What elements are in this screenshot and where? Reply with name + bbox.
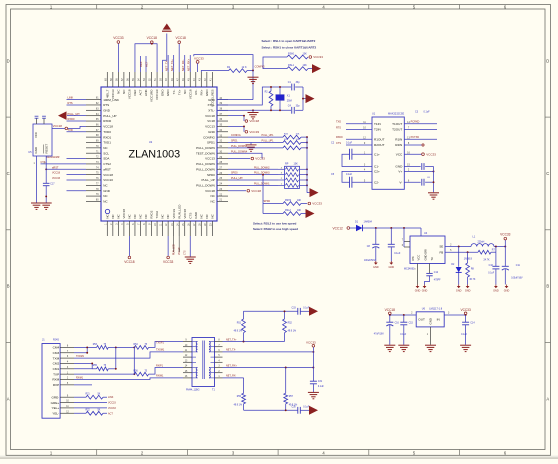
svg-text:NET_TX+: NET_TX+ (226, 338, 237, 341)
svg-text:ZLAN1003: ZLAN1003 (128, 148, 180, 160)
svg-text:R55: R55 (93, 365, 98, 367)
wire VCC12 rail (363, 227, 422, 236)
transformer T1 PM44_11BG body (186, 338, 215, 392)
svg-text:C33: C33 (292, 307, 297, 309)
svg-text:Select : RSH1 to close UART1&U: Select : RSH1 to close UART1&UART2 (262, 45, 317, 49)
svg-text:33p: 33p (296, 81, 301, 84)
svg-text:RUN_LED: RUN_LED (173, 244, 175, 255)
svg-text:TX+: TX+ (177, 89, 181, 95)
svg-text:C1+: C1+ (374, 152, 380, 156)
svg-text:RP: RP (285, 163, 289, 166)
svg-text:A: A (7, 397, 10, 402)
svg-text:RXP: RXP (53, 383, 59, 387)
ground port R8 (465, 285, 471, 293)
net NET_TX- wire (223, 349, 315, 353)
svg-text:5K: 5K (98, 410, 101, 412)
svg-text:C: C (546, 171, 549, 176)
svg-text:PULL_DOWN1: PULL_DOWN1 (254, 183, 270, 185)
wire U4 FB row (445, 250, 478, 253)
svg-text:TEST_DOWN: TEST_DOWN (196, 151, 215, 155)
net stub NET_TX- (164, 55, 168, 72)
svg-text:0.1uF: 0.1uF (346, 141, 353, 144)
power flag VCC33 via RSH1 (309, 55, 323, 59)
svg-text:GND: GND (103, 108, 111, 112)
regulator U6 LM1117-1.8 body (416, 307, 444, 327)
svg-text:SPD0: SPD0 (207, 173, 215, 177)
svg-text:GND: GND (208, 130, 216, 134)
svg-text:R53: R53 (93, 344, 98, 346)
wire VCC33 tap rows 35-34 (228, 125, 259, 133)
U5 pin2 reset leg with capacitor C17 (41, 156, 56, 209)
svg-text:0.1uF: 0.1uF (318, 386, 324, 388)
svg-text:CONFIG: CONFIG (255, 64, 265, 68)
svg-text:GND: GND (493, 290, 499, 293)
svg-text:RXD0: RXD0 (103, 119, 111, 123)
wire IN to VCC33 (444, 313, 466, 316)
arrow port TX rail (309, 307, 318, 316)
svg-text:NET_RX+: NET_RX+ (226, 364, 237, 367)
svg-text:VCC33: VCC33 (163, 260, 174, 264)
resistor RSL1 10K (287, 64, 308, 70)
svg-text:VCC18: VCC18 (52, 172, 61, 175)
svg-text:LINK: LINK (144, 90, 148, 97)
svg-text:RSL2: RSL2 (285, 210, 291, 212)
svg-text:YEL+: YEL+ (52, 406, 60, 410)
pullup rail to arrow port (307, 137, 319, 197)
svg-text:VCC33: VCC33 (460, 308, 471, 312)
svg-text:B: B (7, 284, 10, 289)
capacitor C5 flying cap C2+/C2- (331, 171, 372, 187)
svg-text:Select: RSL2 to use low speed: Select: RSL2 to use low speed (253, 221, 297, 225)
arrow port after RSL1 (308, 64, 321, 73)
ground under crystal rail (248, 110, 259, 119)
capacitor C31 0.1uF center tap (308, 381, 324, 399)
crystal X1 25M (276, 86, 292, 111)
svg-text:GND: GND (166, 89, 170, 97)
svg-text:R2IN: R2IN (395, 143, 402, 147)
svg-text:C: C (7, 171, 10, 176)
net NET_RX- wire (223, 375, 244, 378)
svg-text:NET_RX-: NET_RX- (181, 59, 185, 71)
svg-text:10K: 10K (303, 53, 308, 56)
svg-text:R2OUT: R2OUT (374, 143, 385, 147)
svg-text:C31: C31 (318, 381, 323, 383)
power flag VCC33 bottom (163, 236, 174, 264)
svg-text:PM44_11BG: PM44_11BG (186, 388, 200, 391)
net label aRST (45, 166, 86, 170)
net stub NET_TX+ (170, 55, 174, 72)
svg-text:NET_TX-: NET_TX- (164, 60, 168, 71)
svg-text:12 K: 12 K (242, 66, 247, 69)
svg-text:MAX3232CSE: MAX3232CSE (388, 112, 404, 115)
svg-text:LINK: LINK (68, 96, 74, 100)
svg-text:V-: V- (399, 180, 402, 184)
op-amp U2 ZLAN1003 main chip body (101, 87, 217, 221)
svg-text:PULL_DOWN: PULL_DOWN (196, 167, 215, 171)
net label CTS to U1 (336, 142, 372, 145)
svg-text:SE: SE (439, 245, 443, 249)
svg-text:NET_TX-: NET_TX- (226, 349, 236, 352)
svg-text:VCC18: VCC18 (205, 114, 215, 118)
svg-text:R22: R22 (86, 410, 91, 412)
svg-text:RX+: RX+ (199, 89, 203, 95)
svg-text:C11: C11 (516, 265, 521, 267)
net label PCTXD from R1IN (404, 136, 437, 139)
power flag VCC33 at chip top (113, 36, 124, 72)
svg-text:1N4004: 1N4004 (364, 220, 373, 223)
svg-text:GND: GND (34, 147, 38, 153)
wire VCC18 pi-link over top pins (135, 43, 157, 72)
svg-text:RSH2: RSH2 (285, 200, 292, 202)
svg-text:VCC33: VCC33 (108, 407, 116, 410)
power flag VCC33 on RES net (194, 56, 204, 72)
svg-text:RTS: RTS (336, 127, 341, 130)
power flag VCC18 bottom (124, 236, 135, 264)
svg-text:XTL-: XTL- (208, 108, 215, 112)
svg-text:49.9 1%: 49.9 1% (234, 331, 242, 333)
J1 pin stubs (60, 346, 74, 414)
svg-text:R50: R50 (237, 396, 242, 398)
capacitor C2 flying cap C1+/C1- (331, 141, 372, 166)
svg-text:0.1uF: 0.1uF (303, 406, 309, 408)
svg-text:PULL_UP!: PULL_UP! (231, 177, 243, 180)
svg-text:TXM: TXM (53, 356, 60, 360)
svg-text:25M: 25M (287, 100, 292, 103)
svg-text:RXIP1: RXIP1 (156, 364, 164, 367)
svg-text:VCC12: VCC12 (333, 226, 344, 230)
svg-text:C14: C14 (470, 322, 475, 324)
op-amp U1 MAX3232CSE body (363, 112, 410, 189)
svg-text:10K: 10K (297, 200, 302, 202)
svg-text:0.1uF: 0.1uF (394, 252, 401, 255)
svg-text:VCC33: VCC33 (194, 56, 204, 60)
svg-text:RX-: RX- (194, 90, 198, 95)
regulator U4 MC34063 body (404, 232, 445, 270)
capacitor C1 33p (288, 81, 301, 90)
net label LINK (67, 96, 87, 100)
ground port C12 (422, 285, 428, 293)
svg-text:PULL_UP: PULL_UP (201, 178, 214, 182)
svg-text:GND: GND (504, 290, 510, 293)
ground port D2 (456, 285, 462, 293)
svg-text:DEF: DEF (133, 89, 137, 95)
capacitor C8 100uF/50V (364, 228, 379, 262)
resistor R54 75 (134, 344, 149, 350)
net label VCC18 row 75 (52, 172, 86, 175)
net RXIP1 wire to transformer (149, 364, 183, 374)
svg-text:A: A (546, 397, 549, 402)
svg-text:SCL: SCL (103, 151, 109, 155)
wire XTL+ to crystal top rail (217, 87, 303, 105)
svg-text:C30: C30 (292, 406, 297, 408)
capacitor C15 0.1uF (398, 315, 413, 352)
svg-text:VCC33: VCC33 (306, 340, 316, 344)
arrow port RX rail (309, 406, 318, 415)
power flag VCC18 to reset chip (52, 124, 86, 130)
resistor R21 LED green (74, 394, 114, 400)
net label TXD to U1 (336, 121, 372, 124)
net label RTS to U1 (336, 127, 372, 130)
capacitor C11 100uF/16V (502, 247, 523, 285)
power flag VCC33 row 29 (228, 157, 265, 161)
svg-text:GRE-: GRE- (51, 395, 59, 399)
resistor R51 49.9 1% (234, 311, 246, 341)
resistor RSH2 10K (283, 200, 307, 206)
svg-text:RJ45: RJ45 (53, 339, 59, 342)
ground under R1 and pin40 GND riser (217, 71, 259, 100)
wire SPD0 branch to speed select resistors (262, 174, 283, 214)
ground port C11 (504, 285, 510, 293)
svg-text:VCC33: VCC33 (255, 157, 265, 161)
net label MAX811 reset net (47, 156, 60, 159)
svg-text:GND: GND (456, 290, 462, 293)
net stubs RUN_LED VCC18 CTS bottom (173, 236, 186, 255)
svg-text:TXD0: TXD0 (103, 130, 111, 134)
net VCC33 green anode (74, 402, 116, 405)
resistor R8 36.7K (466, 252, 476, 284)
capacitor C12 470PF timing (425, 264, 442, 285)
net NET_RX+ wire (223, 364, 315, 368)
svg-text:Select: RSH2 to use high speed: Select: RSH2 to use high speed (253, 227, 298, 231)
crystal right rail and arrow port (302, 87, 314, 110)
net label SPD1 row 32 with pull resistor R26 (228, 139, 308, 145)
svg-text:GND: GND (429, 318, 433, 324)
resistor R56 75 (74, 371, 149, 377)
net NET_TX+ wire (223, 338, 285, 342)
capacitor C10 0.1uF (488, 252, 499, 284)
power flag VCC33 at U1 VCC (404, 152, 436, 156)
diode D1 1N4004 (355, 220, 373, 231)
net stub NET_RX- (181, 55, 185, 72)
resistor R22 LED yellow (74, 410, 113, 416)
svg-text:YEL-: YEL- (52, 411, 59, 415)
svg-text:T2IN: T2IN (374, 128, 381, 132)
svg-text:RXD0: RXD0 (68, 117, 75, 121)
svg-text:0.1uF: 0.1uF (461, 334, 467, 336)
svg-text:V+: V+ (398, 170, 402, 174)
svg-text:49.9 1%: 49.9 1% (288, 331, 296, 333)
power flag VCC18 output (385, 308, 396, 315)
svg-text:GND: GND (205, 89, 209, 97)
wire R2IN no-connect marker (404, 144, 424, 146)
svg-text:T1OUT: T1OUT (392, 122, 402, 126)
svg-text:VCC13: VCC13 (205, 157, 215, 161)
svg-text:100uF/50V: 100uF/50V (364, 260, 376, 262)
svg-text:T2OUT: T2OUT (392, 128, 402, 132)
svg-text:RXM: RXM (52, 378, 59, 382)
svg-text:GND: GND (194, 211, 198, 219)
svg-text:aRST: aRST (52, 166, 59, 169)
svg-text:IN: IN (437, 318, 440, 322)
svg-text:VCC33: VCC33 (113, 36, 124, 40)
U4 bottom pin 4 ground (414, 264, 420, 293)
capacitor C33 0.1uF (292, 307, 310, 314)
svg-text:36.7K: 36.7K (469, 279, 475, 281)
svg-text:R56: R56 (134, 371, 139, 373)
svg-text:GND: GND (103, 189, 111, 193)
wire RXP stub (74, 384, 92, 386)
svg-text:PULL_DOWN: PULL_DOWN (196, 146, 215, 150)
svg-text:SDA: SDA (103, 157, 109, 161)
svg-text:PCRXD: PCRXD (411, 121, 420, 124)
capacitor C3 on U1 GND (404, 110, 433, 170)
net stub NET_RX+ (187, 55, 191, 72)
svg-text:R21: R21 (86, 394, 91, 396)
resistor R7 24.7K (478, 247, 496, 262)
svg-text:C2+: C2+ (374, 170, 380, 174)
svg-text:VCC33: VCC33 (313, 55, 323, 59)
net TXOP1 wire to transformer (149, 342, 183, 348)
svg-text:CM4: CM4 (53, 346, 60, 350)
svg-text:CTS: CTS (185, 250, 187, 255)
svg-text:47uF/16V: 47uF/16V (374, 333, 384, 335)
svg-text:IPK: IPK (411, 256, 415, 261)
svg-text:VCC18: VCC18 (122, 209, 126, 219)
net RXIM1 wire to transformer (74, 375, 183, 380)
wire CM4 CM3 join (74, 346, 97, 353)
svg-text:RXD0: RXD0 (336, 136, 343, 139)
svg-text:24.7K: 24.7K (484, 260, 490, 262)
svg-text:PULL_DOWN: PULL_DOWN (196, 162, 215, 166)
svg-text:CTS: CTS (188, 213, 192, 219)
svg-text:C17: C17 (50, 184, 55, 186)
svg-text:GND DRI: GND DRI (423, 249, 427, 261)
svg-text:TXP: TXP (53, 372, 59, 376)
svg-text:RXIM1: RXIM1 (156, 375, 164, 378)
svg-text:GND: GND (161, 89, 165, 97)
U1 right rail to ground (428, 167, 439, 200)
svg-text:GND: GND (422, 290, 428, 293)
svg-text:PULL_DOWN2: PULL_DOWN2 (254, 167, 270, 169)
svg-text:LM1117-1.8: LM1117-1.8 (429, 307, 443, 310)
svg-text:PULL_UP: PULL_UP (103, 114, 116, 118)
svg-text:VCC: VCC (416, 255, 420, 261)
svg-text:R57: R57 (289, 396, 294, 398)
svg-text:ACT: ACT (144, 61, 148, 67)
wires chip rows 28-25 to RP (228, 167, 278, 185)
svg-text:VCC33: VCC33 (52, 177, 61, 180)
svg-text:VCC18: VCC18 (179, 247, 181, 255)
svg-text:VCC18: VCC18 (385, 308, 396, 312)
svg-text:1N5819: 1N5819 (464, 258, 473, 260)
svg-text:VCC18: VCC18 (251, 189, 261, 193)
row 31 pull resistor R27 and earth (228, 142, 308, 151)
wire CM termination vertical (115, 347, 117, 369)
T1 pin stubs and numbers (183, 340, 223, 378)
svg-text:CONFIG: CONFIG (203, 135, 215, 139)
svg-text:VCC18: VCC18 (124, 260, 135, 264)
svg-text:C16: C16 (395, 322, 400, 324)
wire VCC33_RES to R1 (194, 55, 254, 72)
U2 right pin stubs and numbers 40-21 (196, 97, 228, 204)
net label RTS (67, 101, 87, 105)
svg-text:VCC33: VCC33 (312, 202, 322, 206)
capacitor C4 33p (288, 105, 301, 114)
svg-text:0.1uF: 0.1uF (400, 334, 406, 336)
ground bottom of chip (185, 236, 196, 263)
svg-text:C10: C10 (489, 265, 494, 267)
svg-text:TXOM1: TXOM1 (156, 349, 165, 352)
svg-text:10K: 10K (303, 64, 308, 67)
svg-text:485_T: 485_T (105, 89, 109, 98)
net label PCRXD from T1OUT (404, 121, 437, 124)
svg-text:470PF: 470PF (434, 279, 441, 281)
net stub DEF (139, 56, 143, 72)
svg-text:VCC33I: VCC33I (155, 89, 159, 100)
svg-text:VCC: VCC (34, 132, 38, 138)
svg-text:NET_TX+: NET_TX+ (170, 59, 174, 71)
svg-text:VCC33: VCC33 (426, 152, 436, 156)
svg-text:GND: GND (389, 266, 395, 269)
resistor R55 75 (92, 365, 116, 371)
svg-text:T1IN: T1IN (374, 122, 381, 126)
power bar symbol at chip top (162, 24, 172, 73)
power flag VCC33 output (500, 232, 511, 246)
net stub ACT (144, 56, 148, 72)
svg-text:49.9 1%: 49.9 1% (234, 404, 242, 406)
svg-text:SPD0: SPD0 (231, 172, 238, 175)
svg-text:Select : RSL1 to open UART1&UA: Select : RSL1 to open UART1&UART2 (262, 39, 316, 43)
svg-text:R54: R54 (134, 344, 139, 346)
power flag VCC18 row 23 (228, 189, 261, 193)
ground port C10 (493, 285, 499, 293)
capacitor C16 47uF/16V (374, 315, 400, 352)
svg-text:aRST: aRST (103, 167, 111, 171)
wire T2OUT (404, 129, 437, 131)
svg-text:220uH: 220uH (478, 242, 485, 244)
svg-text:PULL_DOWN: PULL_DOWN (196, 184, 215, 188)
capacitor C30 0.1uF (292, 406, 310, 413)
ground port C9 (389, 261, 395, 269)
diode D2 1N5819 (451, 247, 472, 285)
svg-text:CM3: CM3 (53, 351, 60, 355)
svg-text:VCC33: VCC33 (108, 402, 116, 405)
resistor R2 crystal feedback (265, 86, 273, 111)
svg-text:RXD1: RXD1 (103, 135, 111, 139)
svg-text:C15: C15 (409, 322, 414, 324)
svg-text:PULL_UP1: PULL_UP1 (262, 134, 275, 137)
svg-text:LINK: LINK (108, 396, 114, 399)
svg-text:C12: C12 (434, 272, 439, 274)
svg-text:R1OUT: R1OUT (374, 137, 385, 141)
svg-text:VCC18: VCC18 (176, 36, 187, 40)
net label CONFIG at select (255, 64, 265, 68)
wire center tap rail (312, 352, 314, 381)
svg-text:FB: FB (439, 251, 443, 255)
svg-text:RSH1: RSH1 (288, 53, 295, 56)
wire row 72 (67, 158, 87, 160)
svg-text:D: D (7, 59, 10, 64)
net label VCC33 row 76 (52, 177, 86, 180)
power flag VCC33 center tap (306, 340, 316, 352)
capacitor C14 0.1uF (460, 315, 475, 352)
resistor R52 49.9 1% (283, 311, 296, 341)
power flag VCC18 second (176, 36, 187, 72)
svg-text:VCC33_RES: VCC33_RES (210, 90, 214, 108)
svg-text:CM1: CM1 (53, 367, 60, 371)
resistor RSH1 10K (287, 53, 308, 59)
svg-text:R52: R52 (288, 323, 293, 325)
wire TX pair vertical link (133, 347, 135, 375)
svg-text:VCC13: VCC13 (205, 125, 215, 129)
row 30 TEST_DOWN wire (228, 150, 262, 158)
svg-text:CTS2: CTS2 (103, 162, 111, 166)
power flag VCC18 first (147, 36, 158, 44)
svg-text:0.1uF: 0.1uF (424, 110, 431, 113)
svg-text:TXOP1: TXOP1 (156, 342, 165, 345)
svg-text:VCC18: VCC18 (183, 209, 187, 219)
svg-text:VCC33: VCC33 (172, 209, 176, 219)
